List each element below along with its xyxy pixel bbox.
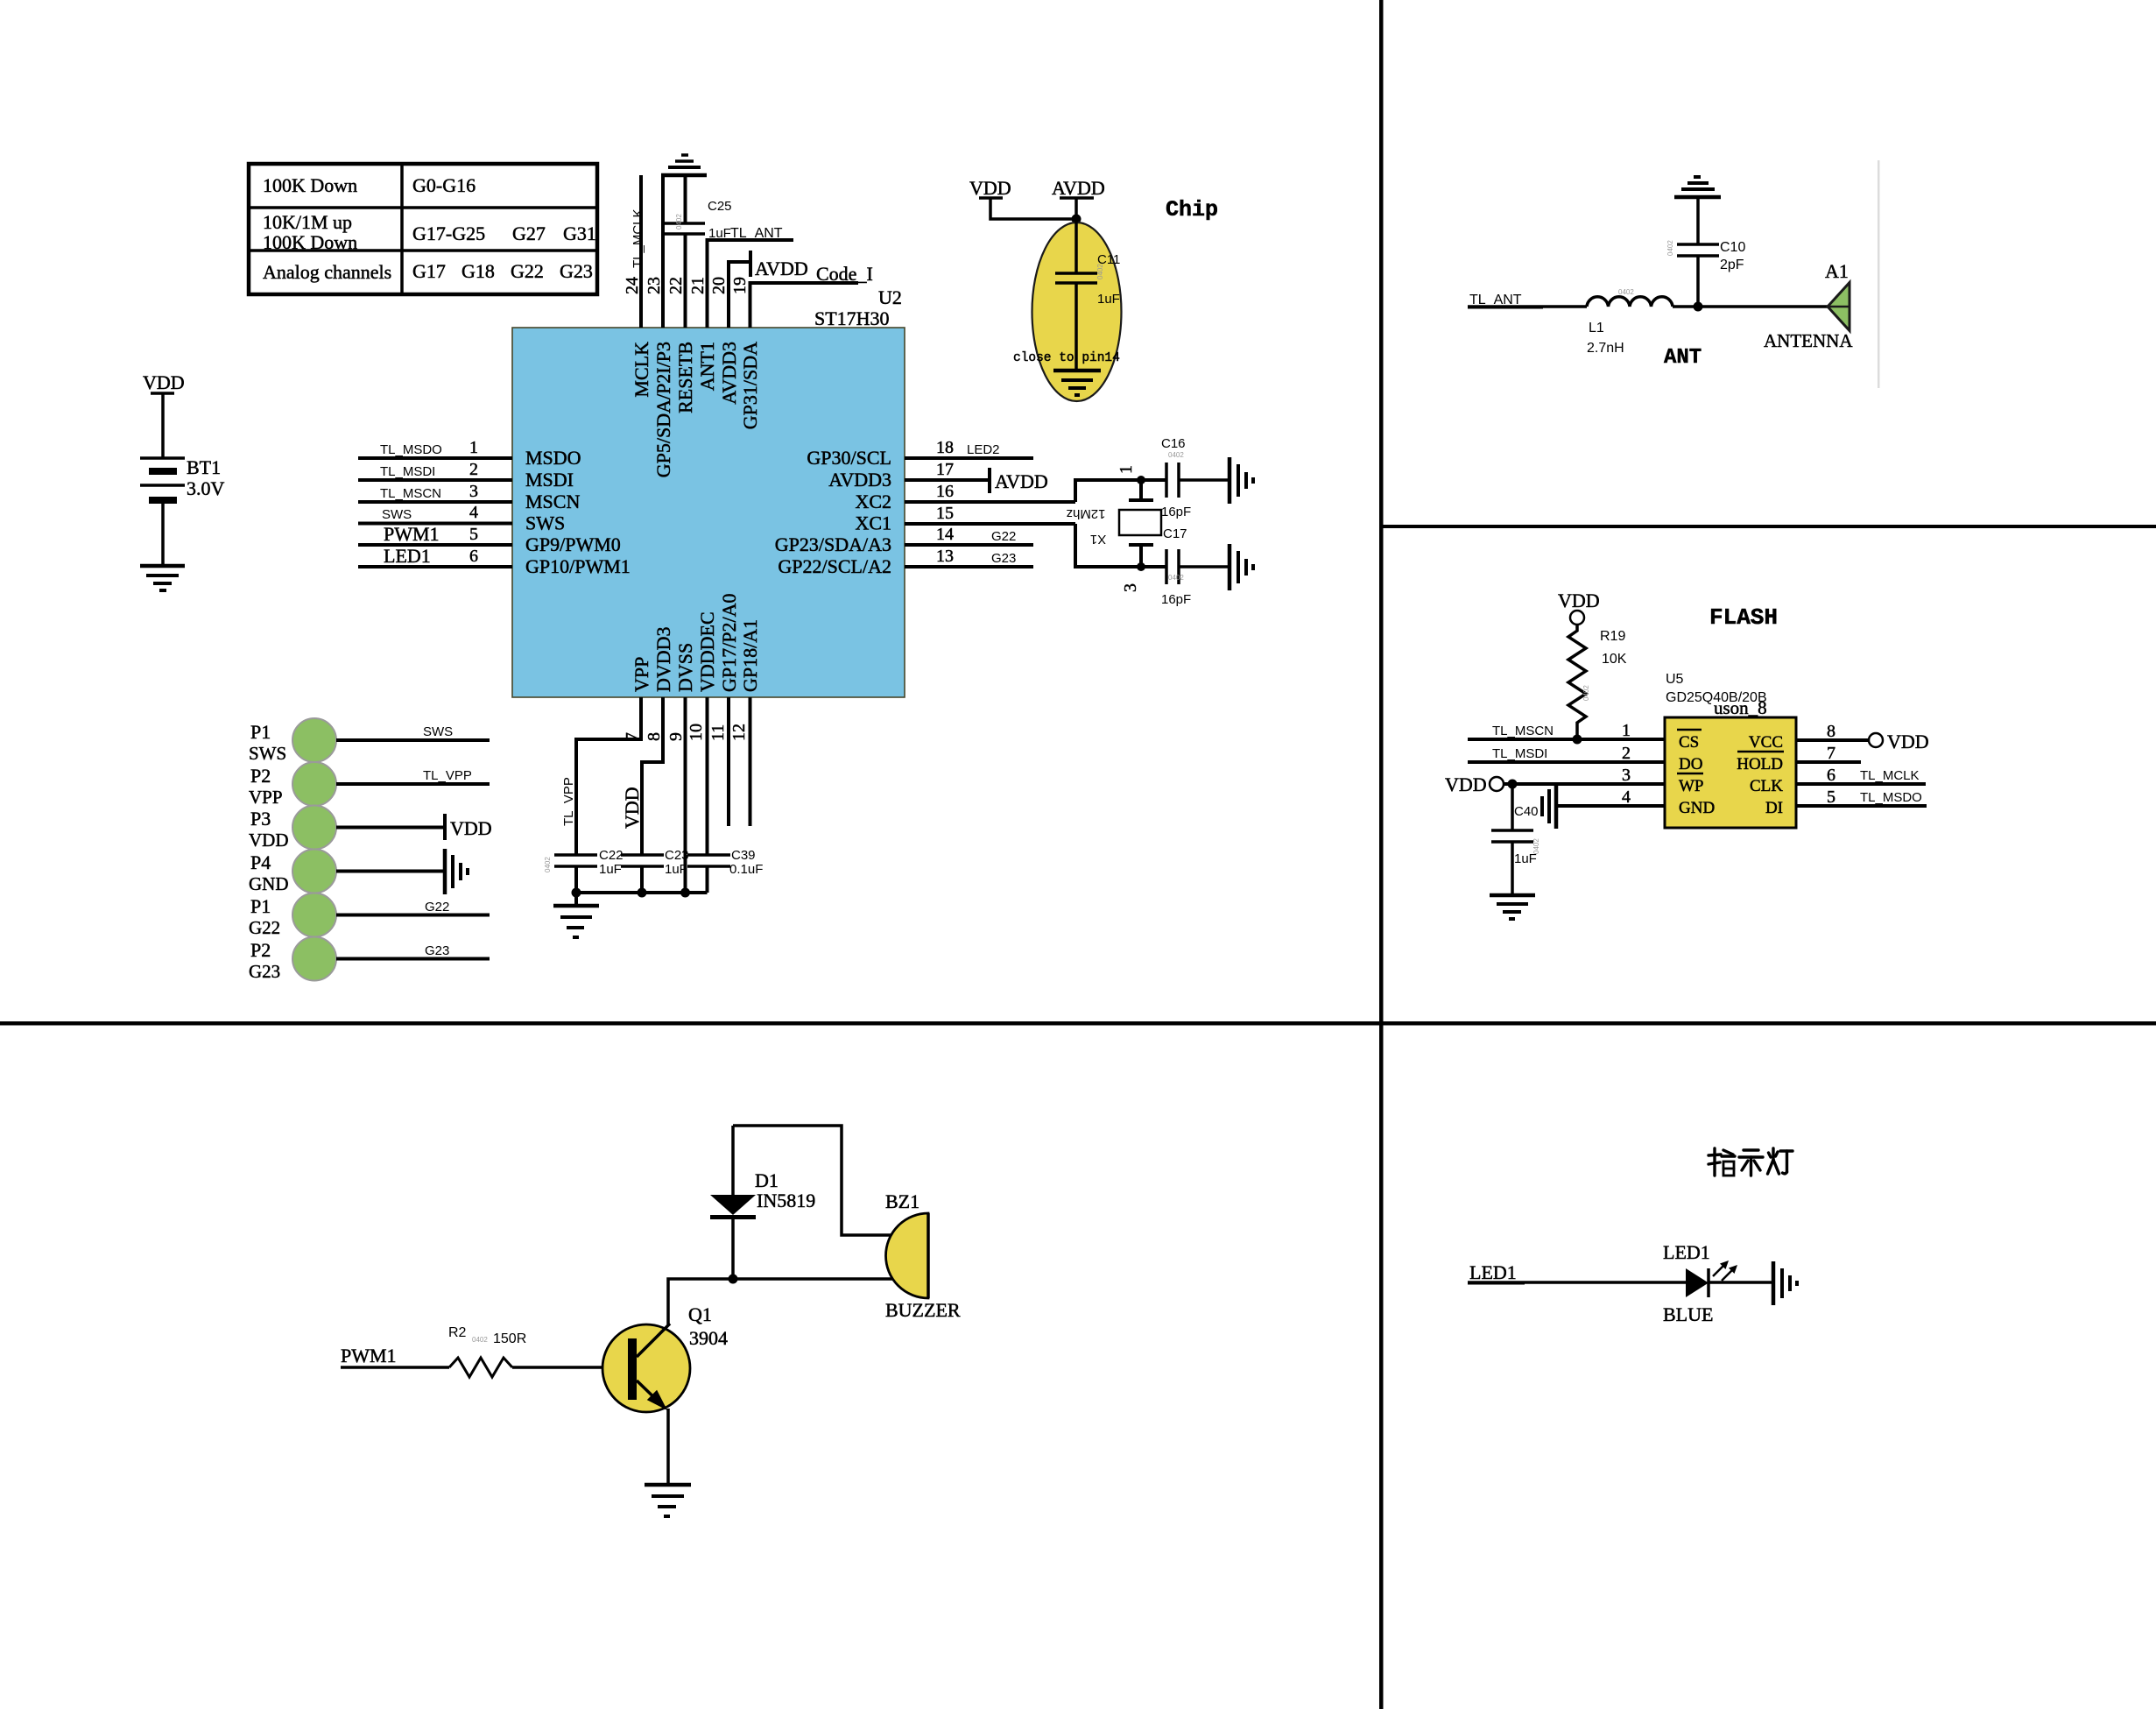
svg-text:16: 16 <box>936 482 954 501</box>
svg-text:DVDD3: DVDD3 <box>652 626 674 692</box>
svg-text:CLK: CLK <box>1750 777 1783 795</box>
svg-text:VDD: VDD <box>1445 773 1487 795</box>
svg-text:5: 5 <box>1827 787 1835 807</box>
LED LED1 BLUE <box>1663 1241 1737 1325</box>
svg-text:U5: U5 <box>1666 672 1684 687</box>
wire to VDD <box>336 826 445 830</box>
ground <box>553 906 599 937</box>
capacitor C25 1uF <box>663 175 732 241</box>
wire net LED1 <box>1468 1261 1686 1284</box>
wire diode to buzzer top <box>733 1126 891 1235</box>
svg-text:G23: G23 <box>425 943 449 958</box>
wire <box>161 393 165 458</box>
note ellipse (close to pin14) <box>1032 222 1122 401</box>
pin 20 AVDD3 / node AVDD <box>709 251 808 405</box>
svg-text:VPP: VPP <box>249 787 283 808</box>
wire net TL_ANT <box>1468 293 1587 308</box>
svg-text:C16: C16 <box>1161 436 1186 451</box>
svg-text:10K/1M up: 10K/1M up <box>263 211 352 233</box>
wire <box>574 893 578 906</box>
svg-text:GP10/PWM1: GP10/PWM1 <box>525 555 631 577</box>
wire pin 3 WP <box>1504 766 1665 785</box>
capacitor C39 0.1uF <box>687 848 763 893</box>
svg-text:GND: GND <box>1679 799 1715 817</box>
capacitor C11 1uF <box>1055 252 1120 307</box>
svg-text:GP30/SCL: GP30/SCL <box>807 447 891 469</box>
svg-text:6: 6 <box>469 547 478 566</box>
pin 10 VDDDEC <box>687 611 718 855</box>
svg-text:AVDD3: AVDD3 <box>718 342 740 405</box>
capacitor C23 1uF <box>621 848 689 893</box>
svg-text:GP18/A1: GP18/A1 <box>739 619 761 692</box>
svg-text:VDD: VDD <box>621 787 643 829</box>
pin 21 ANT1 / wire net TL_ANT <box>688 226 793 391</box>
svg-text:TL_MSCN: TL_MSCN <box>1492 724 1554 738</box>
svg-text:7: 7 <box>1827 744 1835 763</box>
pin 3 MSCN / wire net TL_MSCN <box>358 482 580 512</box>
svg-text:8: 8 <box>1827 722 1835 741</box>
svg-text:SWS: SWS <box>249 743 286 764</box>
pin 7 VPP / wire net TL_VPP <box>561 657 652 855</box>
svg-text:XC2: XC2 <box>855 491 891 512</box>
svg-text:BLUE: BLUE <box>1663 1303 1713 1325</box>
svg-text:DVSS: DVSS <box>674 643 696 692</box>
svg-text:12Mhz: 12Mhz <box>1066 506 1105 521</box>
svg-text:TL_MSCN: TL_MSCN <box>380 486 441 501</box>
svg-text:AVDD3: AVDD3 <box>828 469 891 491</box>
wire: faint page edge line <box>1878 160 1880 388</box>
svg-text:0402: 0402 <box>1096 264 1104 279</box>
svg-text:A1: A1 <box>1825 260 1849 282</box>
pin 6 GP10/PWM1 / wire net LED1 <box>358 545 631 577</box>
svg-text:15: 15 <box>936 504 954 523</box>
svg-text:AVDD: AVDD <box>755 258 808 279</box>
pin 14 GP23/SDA/A3 / wire net G22 <box>775 525 1033 555</box>
wire emitter down <box>666 1409 670 1485</box>
ground (sideways left) <box>1542 783 1556 829</box>
svg-text:Analog channels: Analog channels <box>263 261 391 283</box>
svg-text:MSDI: MSDI <box>525 469 574 491</box>
svg-text:G22: G22 <box>991 529 1016 544</box>
svg-text:P4: P4 <box>250 851 271 873</box>
svg-text:C23: C23 <box>665 848 689 863</box>
svg-text:MSDO: MSDO <box>525 447 581 469</box>
wire pin 7 HOLD <box>1796 744 1861 763</box>
junction <box>1508 780 1518 789</box>
svg-text:6: 6 <box>1827 766 1835 785</box>
wire pin 4 GND <box>1556 787 1665 807</box>
svg-text:VDD: VDD <box>249 830 289 851</box>
svg-text:3.0V: 3.0V <box>187 477 225 499</box>
svg-text:21: 21 <box>688 277 708 294</box>
battery BT1 3.0V <box>140 456 225 500</box>
svg-text:PWM1: PWM1 <box>341 1345 397 1366</box>
svg-text:0402: 0402 <box>472 1336 488 1344</box>
svg-text:0402: 0402 <box>1168 451 1184 459</box>
svg-text:FLASH: FLASH <box>1709 604 1778 631</box>
svg-text:LED1: LED1 <box>1469 1261 1517 1283</box>
svg-text:GP31/SDA: GP31/SDA <box>739 342 761 429</box>
wire ground rail <box>576 891 708 894</box>
svg-text:GP5/SDA/P2I/P3: GP5/SDA/P2I/P3 <box>652 342 674 477</box>
resistor R2 150R <box>448 1325 526 1377</box>
pin 12 GP18/A1 (stub) <box>729 619 761 826</box>
svg-text:TL_ANT: TL_ANT <box>1469 293 1522 307</box>
svg-text:10K: 10K <box>1602 652 1627 667</box>
svg-text:VDD: VDD <box>969 177 1011 199</box>
svg-text:TL_MCLK: TL_MCLK <box>631 208 645 268</box>
pin 16 XC2 / wire to crystal <box>855 480 1166 512</box>
ground (pointing up) <box>1674 177 1721 197</box>
svg-text:11: 11 <box>708 724 728 741</box>
svg-text:0402: 0402 <box>1582 685 1590 701</box>
svg-text:SWS: SWS <box>382 507 412 522</box>
pin 1 MSDO / wire net TL_MSDO <box>358 438 581 469</box>
junction <box>1694 302 1703 312</box>
pin 8 DVDD3 / wire net VDD <box>621 626 674 855</box>
connector P1 G22 <box>249 893 336 939</box>
wire <box>1074 219 1078 273</box>
svg-text:TL_MSDI: TL_MSDI <box>380 464 435 479</box>
svg-text:uson_8: uson_8 <box>1714 697 1767 718</box>
svg-text:150R: 150R <box>493 1331 526 1346</box>
svg-text:C17: C17 <box>1163 526 1187 541</box>
node AVDD <box>1052 177 1105 222</box>
junction <box>1573 735 1582 745</box>
wire <box>1074 283 1078 371</box>
inductor L1 2.7nH <box>1587 288 1673 356</box>
svg-text:TL_MSDO: TL_MSDO <box>380 442 442 457</box>
wire net TL_MSDI / pin 2 <box>1468 744 1665 763</box>
capacitor C16 16pF <box>1161 436 1229 519</box>
svg-text:U2: U2 <box>878 286 902 308</box>
svg-text:ANT: ANT <box>1664 346 1702 370</box>
svg-text:1: 1 <box>1117 465 1136 474</box>
svg-text:2: 2 <box>469 460 478 479</box>
svg-text:0402: 0402 <box>675 214 683 230</box>
pin 23 GP5/SDA/P2I/P3 / wire to ground <box>645 175 674 477</box>
svg-text:VDD: VDD <box>450 817 492 839</box>
svg-text:GND: GND <box>249 873 289 894</box>
node VDD <box>445 814 492 840</box>
svg-text:Chip: Chip <box>1166 197 1218 222</box>
svg-text:1uF: 1uF <box>599 862 622 877</box>
svg-text:7: 7 <box>623 732 642 741</box>
wire net TL_MSCN / pin 1 <box>1468 721 1665 740</box>
ground <box>140 566 185 590</box>
svg-text:22: 22 <box>666 277 686 294</box>
svg-text:GP17/P2/A0: GP17/P2/A0 <box>718 594 740 692</box>
svg-text:BZ1: BZ1 <box>885 1190 919 1212</box>
ground <box>1053 371 1101 395</box>
capacitor C22 1uF <box>544 848 624 893</box>
pin 2 MSDI / wire net TL_MSDI <box>358 460 574 491</box>
svg-text:AVDD: AVDD <box>1052 177 1105 199</box>
svg-text:16pF: 16pF <box>1161 592 1191 607</box>
svg-text:G22: G22 <box>511 260 544 282</box>
svg-text:close to pin14: close to pin14 <box>1013 351 1120 365</box>
svg-text:ANT1: ANT1 <box>696 342 718 391</box>
svg-text:20: 20 <box>709 277 729 294</box>
svg-text:LED1: LED1 <box>384 545 431 567</box>
crystal X1 12Mhz <box>1066 465 1161 592</box>
svg-text:TL_MCLK: TL_MCLK <box>1860 768 1920 783</box>
svg-text:G22: G22 <box>425 900 449 915</box>
flash U5 GD25Q40B/20B <box>1665 672 1796 828</box>
pin 5 GP9/PWM0 / wire net PWM1 <box>358 523 621 555</box>
svg-text:P1: P1 <box>250 895 271 917</box>
node VDD (WP) <box>1445 773 1504 795</box>
ground <box>1490 895 1535 919</box>
junction node pin16/XC2 <box>1137 476 1145 484</box>
svg-text:G22: G22 <box>249 917 280 938</box>
svg-text:2.7nH: 2.7nH <box>1587 341 1624 356</box>
svg-text:18: 18 <box>936 438 954 457</box>
svg-text:14: 14 <box>936 525 954 544</box>
connector P2 G23 <box>249 937 336 983</box>
wire <box>512 1366 629 1369</box>
note 指示灯 (indicator light) <box>1709 1148 1793 1176</box>
svg-text:G0-G16: G0-G16 <box>412 174 476 196</box>
junction node pin15/XC1 <box>1137 562 1145 571</box>
node VDD (top of R19) <box>1558 590 1600 625</box>
svg-text:0.1uF: 0.1uF <box>729 862 763 877</box>
svg-text:1uF: 1uF <box>665 862 687 877</box>
svg-text:VDD: VDD <box>143 371 185 393</box>
ground (sideways right) <box>1773 1261 1797 1305</box>
svg-text:P2: P2 <box>250 765 271 787</box>
svg-text:LED1: LED1 <box>1663 1241 1710 1263</box>
svg-text:G23: G23 <box>991 551 1016 566</box>
svg-text:4: 4 <box>469 503 478 522</box>
capacitor C10 2pF <box>1666 197 1745 307</box>
wire pin 6 CLK net TL_MCLK <box>1796 766 1926 785</box>
svg-text:24: 24 <box>623 277 642 294</box>
wire net TL_VPP <box>336 768 490 784</box>
capacitor C17 16pF <box>1161 526 1229 607</box>
svg-text:TL_ANT: TL_ANT <box>730 226 783 241</box>
wire pin 8 VCC / node VDD <box>1796 722 1929 752</box>
svg-text:4: 4 <box>1622 787 1631 807</box>
svg-text:G23: G23 <box>560 260 593 282</box>
wire pin 5 DI net TL_MSDO <box>1796 787 1927 807</box>
wire: horizontal section divider (full width) <box>0 1021 2156 1026</box>
svg-text:BT1: BT1 <box>187 456 221 478</box>
wire <box>161 500 165 566</box>
svg-text:C39: C39 <box>731 848 756 863</box>
svg-text:C22: C22 <box>599 848 624 863</box>
svg-text:VPP: VPP <box>631 657 652 692</box>
wire junction to buzzer bottom <box>733 1277 894 1281</box>
svg-text:C40: C40 <box>1514 804 1539 819</box>
connector P2 VPP <box>249 762 336 808</box>
svg-text:100K Down: 100K Down <box>263 231 357 253</box>
svg-text:5: 5 <box>469 525 478 544</box>
svg-text:MCLK: MCLK <box>631 342 652 398</box>
wire <box>1709 1281 1773 1284</box>
svg-text:19: 19 <box>730 277 750 294</box>
junction <box>729 1275 738 1284</box>
wire net SWS <box>336 724 490 740</box>
svg-text:WP: WP <box>1679 777 1704 795</box>
node VDD <box>969 177 1011 199</box>
pin 18 GP30/SCL / wire net LED2 <box>807 438 1033 469</box>
svg-text:SWS: SWS <box>423 724 453 739</box>
svg-text:DO: DO <box>1679 755 1702 773</box>
svg-text:DI: DI <box>1765 799 1783 817</box>
svg-text:VCC: VCC <box>1749 733 1783 752</box>
resistor R19 10K <box>1568 625 1627 739</box>
svg-text:1uF: 1uF <box>1097 292 1120 307</box>
svg-text:VDD: VDD <box>1887 731 1929 752</box>
node GPIO legend table <box>249 164 597 294</box>
svg-text:LED2: LED2 <box>967 442 1000 457</box>
svg-text:P3: P3 <box>250 808 271 830</box>
transistor Q1 3904 <box>602 1303 728 1412</box>
svg-text:VDD: VDD <box>1558 590 1600 611</box>
svg-text:13: 13 <box>936 547 954 566</box>
svg-text:3: 3 <box>1622 766 1631 785</box>
svg-text:TL_MSDI: TL_MSDI <box>1492 746 1547 761</box>
svg-text:TL_MSDO: TL_MSDO <box>1860 790 1922 805</box>
svg-text:9: 9 <box>666 732 686 741</box>
ground (sideways right) <box>1229 457 1253 504</box>
svg-text:L1: L1 <box>1589 321 1604 335</box>
wire collector up <box>668 1279 733 1325</box>
pin 19 GP31/SDA / wire net Code_I <box>730 263 873 429</box>
svg-text:AVDD: AVDD <box>995 470 1048 492</box>
svg-text:3: 3 <box>469 482 478 501</box>
connector P3 VDD <box>249 806 336 851</box>
svg-text:D1: D1 <box>755 1169 779 1191</box>
ground <box>645 1485 691 1516</box>
svg-text:SWS: SWS <box>525 512 565 534</box>
svg-text:G17: G17 <box>412 260 446 282</box>
svg-text:1: 1 <box>1622 721 1631 740</box>
wire: horizontal section divider (right half) <box>1381 525 2156 528</box>
svg-text:G23: G23 <box>249 961 280 982</box>
svg-text:CS: CS <box>1679 733 1699 752</box>
buzzer BZ1 <box>885 1190 961 1321</box>
pin 9 DVSS / wire to ground rail <box>666 643 696 893</box>
capacitor C40 1uF <box>1491 784 1540 895</box>
svg-text:R2: R2 <box>448 1325 467 1340</box>
pin 24 MCLK / wire net TL_MCLK <box>623 175 652 398</box>
svg-text:12: 12 <box>729 724 749 741</box>
svg-text:ST17H30: ST17H30 <box>814 307 890 329</box>
svg-text:3: 3 <box>1121 583 1140 592</box>
svg-text:IN5819: IN5819 <box>757 1190 815 1211</box>
svg-text:0402: 0402 <box>544 857 552 872</box>
svg-text:0402: 0402 <box>1666 240 1674 256</box>
svg-text:G17-G25: G17-G25 <box>412 222 485 244</box>
svg-text:TL_VPP: TL_VPP <box>561 777 576 826</box>
pin 17 AVDD3 / node AVDD <box>828 460 1047 493</box>
svg-text:G18: G18 <box>461 260 495 282</box>
svg-text:8: 8 <box>645 732 664 741</box>
svg-text:RESETB: RESETB <box>674 342 696 413</box>
svg-text:10: 10 <box>687 724 706 741</box>
svg-text:GP23/SDA/A3: GP23/SDA/A3 <box>775 533 891 555</box>
svg-text:C10: C10 <box>1720 240 1745 255</box>
wire net G23 <box>336 943 490 959</box>
junction <box>572 888 581 898</box>
diode D1 IN5819 <box>710 1126 815 1279</box>
svg-text:PWM1: PWM1 <box>384 523 440 545</box>
node VDD (battery) <box>143 371 185 393</box>
pin 13 GP22/SCL/A2 / wire net G23 <box>778 547 1033 577</box>
pin 15 XC1 / wire to crystal <box>855 504 1166 567</box>
ground (pointing up) <box>661 155 707 175</box>
junction <box>638 888 647 898</box>
svg-text:VDDDEC: VDDDEC <box>696 611 718 692</box>
junction <box>1072 215 1082 224</box>
svg-text:MSCN: MSCN <box>525 491 580 512</box>
svg-text:XC1: XC1 <box>855 512 891 534</box>
svg-text:100K Down: 100K Down <box>263 174 357 196</box>
svg-text:BUZZER: BUZZER <box>885 1299 961 1321</box>
svg-text:ANTENNA: ANTENNA <box>1764 330 1853 351</box>
ground (sideways right) <box>1229 544 1253 590</box>
pin 11 GP17/P2/A0 (stub) <box>708 594 740 826</box>
pin 22 RESETB <box>666 234 696 413</box>
svg-text:3904: 3904 <box>689 1327 728 1349</box>
svg-text:G27: G27 <box>512 222 546 244</box>
wire VDD to AVDD junction <box>990 198 1076 219</box>
svg-text:Code_I: Code_I <box>816 263 873 285</box>
svg-text:2pF: 2pF <box>1720 258 1744 272</box>
svg-text:17: 17 <box>936 460 954 479</box>
svg-text:P2: P2 <box>250 939 271 961</box>
wire: vertical section divider <box>1379 0 1384 1709</box>
wire to ground <box>336 870 445 873</box>
svg-text:R19: R19 <box>1600 629 1625 644</box>
ground (sideways) <box>445 849 468 894</box>
wire net G22 <box>336 900 490 915</box>
svg-text:1: 1 <box>469 438 478 457</box>
svg-text:C25: C25 <box>708 199 732 214</box>
svg-text:G31: G31 <box>563 222 596 244</box>
wire net PWM1 <box>341 1345 449 1367</box>
svg-text:P1: P1 <box>250 721 271 743</box>
svg-text:TL_VPP: TL_VPP <box>423 768 472 783</box>
chip U2 ST17H30 <box>512 286 905 697</box>
svg-text:0402: 0402 <box>1618 288 1634 296</box>
wire <box>1673 305 1828 308</box>
junction <box>680 888 690 898</box>
svg-text:GP22/SCL/A2: GP22/SCL/A2 <box>778 555 891 577</box>
svg-text:0402: 0402 <box>1532 838 1540 854</box>
connector P4 GND <box>249 850 336 895</box>
svg-text:HOLD: HOLD <box>1737 755 1783 773</box>
svg-text:X1: X1 <box>1090 532 1106 547</box>
svg-text:23: 23 <box>645 277 664 294</box>
svg-text:16pF: 16pF <box>1161 505 1191 519</box>
svg-text:GP9/PWM0: GP9/PWM0 <box>525 533 621 555</box>
connector P1 SWS <box>249 718 336 764</box>
pin 4 SWS / wire net SWS <box>358 503 565 534</box>
svg-text:Q1: Q1 <box>688 1303 712 1325</box>
svg-text:2: 2 <box>1622 744 1631 763</box>
antenna A1 <box>1764 260 1853 351</box>
svg-text:0402: 0402 <box>1168 574 1184 582</box>
